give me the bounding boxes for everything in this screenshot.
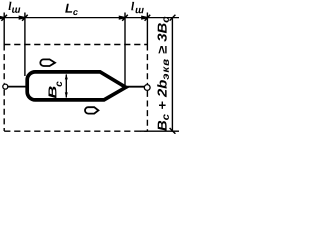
vertical dimension line right [171,18,173,131]
splice body [27,72,126,100]
left wire [8,86,27,88]
mini oval top [40,59,55,66]
slash terminator bottom [170,128,176,134]
vertical formula text [157,17,169,131]
Bc dimension line (vertical, inside body) [65,75,67,98]
Bc dimension arrow down [65,92,68,98]
right dashed border [146,45,148,85]
left dashed border [3,45,5,84]
Bc dimension arrow up [65,74,68,80]
extension line at x=4.2 (left border top, solid) [3,13,5,45]
bottom dashed border [4,130,147,132]
Bc label [49,86,57,98]
left connection circle [3,84,8,89]
extension line at x=125 [124,13,126,86]
extension line at x=24.9 [24,13,26,77]
right wire [125,86,144,88]
mini oval bottom [85,107,98,113]
top dashed border [4,44,147,46]
extension line at x=147.4 (right border top, solid) [146,13,148,45]
dimension arrow at third extension (x=125) [120,15,128,21]
top dimension line [1,17,179,19]
right connection circle [144,85,150,91]
label l_sh right [131,2,134,10]
bottom extension (solid) to right edge [140,130,179,132]
label l_sh left [9,2,12,10]
dimension arrow at left extension (x=4.2) [0,15,7,21]
label L_c [65,4,78,15]
dimension arrow at second extension (x=24.9) [19,15,27,21]
dimension arrow at fourth extension (x=147.4) [142,15,150,21]
slash terminator top [170,15,176,21]
